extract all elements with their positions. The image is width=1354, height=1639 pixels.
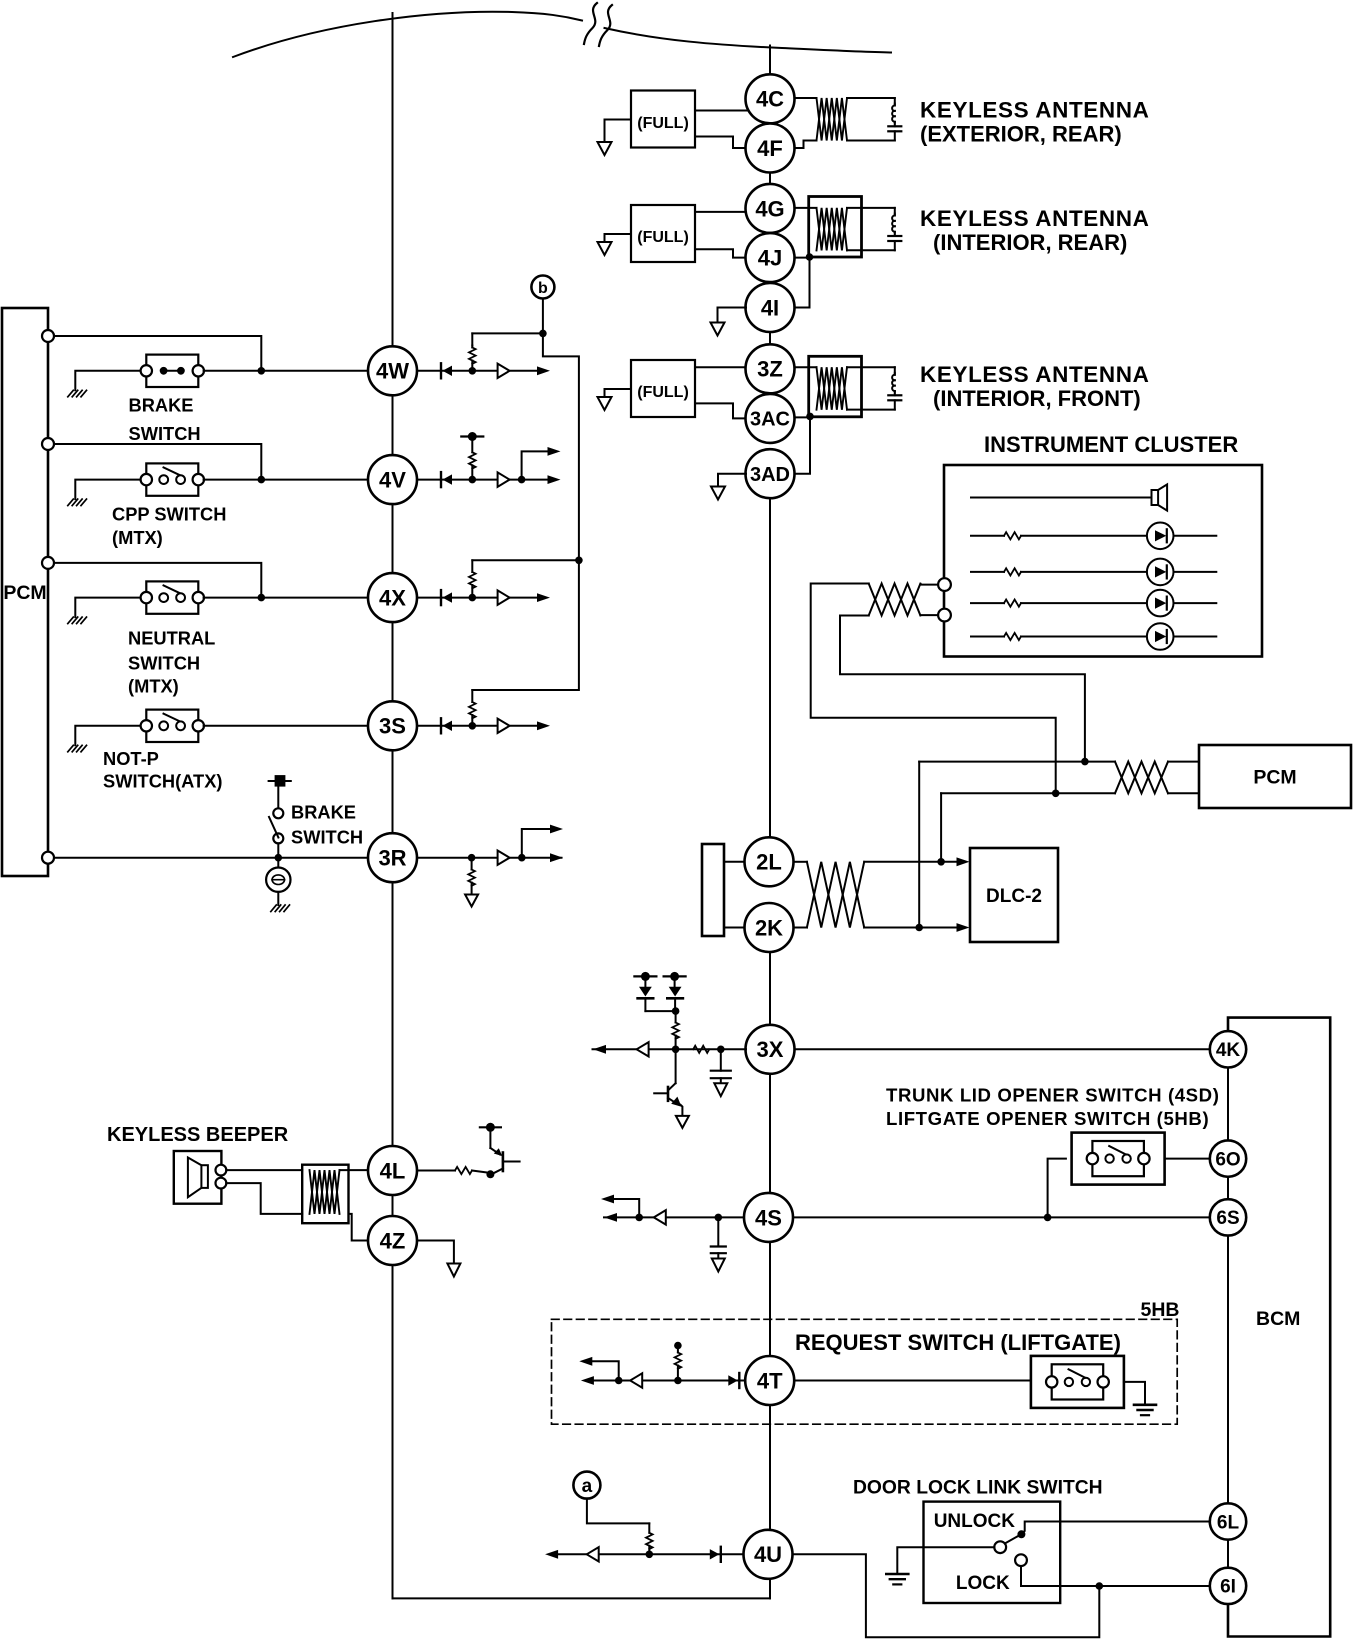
connector 4S — [744, 1193, 793, 1242]
arrow — [957, 857, 970, 866]
resistor — [675, 1011, 677, 1022]
wire — [920, 584, 938, 586]
wire — [349, 1214, 369, 1241]
wire — [1021, 636, 1147, 638]
node — [615, 1377, 623, 1385]
capacitor — [888, 394, 901, 396]
arrow — [550, 825, 563, 834]
node — [1044, 1214, 1052, 1222]
svg-text:4U: 4U — [754, 1542, 782, 1567]
wire — [587, 1499, 649, 1524]
buffer — [587, 1547, 599, 1561]
node — [468, 854, 476, 862]
wire — [847, 207, 895, 209]
wire — [718, 308, 747, 323]
capacitor — [720, 1049, 722, 1070]
wire — [695, 249, 747, 257]
wire: left bus segment — [392, 750, 394, 833]
node — [575, 557, 583, 565]
wire: left bus segment — [392, 395, 394, 455]
wire — [847, 97, 895, 99]
ground — [711, 487, 725, 500]
wire — [1021, 571, 1147, 573]
svg-text:6S: 6S — [1216, 1208, 1239, 1229]
resistor — [455, 1167, 472, 1174]
switch: NOT-P SWITCH (open) — [146, 710, 198, 742]
arrow — [579, 1357, 592, 1366]
arrow — [957, 923, 970, 932]
resistor — [1004, 568, 1021, 575]
arrow — [601, 1195, 614, 1204]
arrow — [581, 1376, 594, 1385]
node — [275, 854, 283, 862]
wire — [1168, 761, 1199, 763]
wire — [894, 232, 896, 236]
wire — [1174, 636, 1217, 638]
wire — [695, 137, 747, 149]
svg-text:DOOR LOCK LINK SWITCH: DOOR LOCK LINK SWITCH — [853, 1478, 1103, 1499]
wire — [864, 927, 957, 929]
wire — [54, 857, 368, 859]
pin — [216, 1165, 227, 1176]
diode — [638, 997, 654, 1000]
svg-text:2L: 2L — [756, 850, 782, 875]
wire: right bus segment — [769, 498, 771, 837]
buffer — [654, 1210, 666, 1224]
node — [1081, 758, 1089, 766]
node — [715, 1214, 723, 1222]
wire: right bus segment — [769, 332, 771, 344]
module box (FULL) U2 — [631, 205, 695, 262]
wire — [971, 636, 1004, 638]
wire: bottom connector left-bus to 4U — [393, 1597, 771, 1599]
pin — [42, 557, 54, 569]
connector bracket — [702, 844, 724, 936]
buffer — [630, 1373, 642, 1387]
wire: right bus segment — [769, 1579, 771, 1599]
resistor — [471, 690, 473, 702]
resistor — [648, 1523, 650, 1532]
module box: keyless beeper — [174, 1151, 222, 1204]
svg-text:NEUTRAL: NEUTRAL — [128, 628, 215, 649]
wire — [510, 725, 537, 727]
buffer — [498, 472, 510, 486]
connector 6L — [1210, 1503, 1246, 1539]
wire — [794, 1216, 1210, 1218]
contact UNLOCK — [1017, 1530, 1025, 1538]
connector 3AC — [746, 394, 795, 443]
connector 6S — [1210, 1199, 1246, 1235]
power tap — [461, 435, 483, 437]
wire: left bus segment — [392, 504, 394, 573]
wire — [75, 480, 140, 500]
svg-text:3Z: 3Z — [757, 357, 783, 382]
connector 4F — [746, 124, 795, 173]
module box (FULL) U3 — [631, 360, 695, 417]
switch: BRAKE SWITCH (vertical) — [269, 780, 291, 782]
svg-text:KEYLESS ANTENNA: KEYLESS ANTENNA — [920, 206, 1149, 231]
ground — [68, 499, 74, 506]
pin — [938, 578, 951, 591]
wire — [614, 1199, 639, 1217]
antenna coil L3 — [817, 367, 848, 410]
svg-text:4G: 4G — [755, 196, 784, 221]
svg-text:3X: 3X — [757, 1037, 784, 1062]
svg-text:4F: 4F — [757, 136, 783, 161]
boundary: 5HB dashed box — [552, 1319, 1178, 1424]
svg-text:(MTX): (MTX) — [128, 676, 179, 697]
wire — [1168, 792, 1199, 794]
node — [937, 858, 945, 866]
connector 6I — [1210, 1568, 1246, 1604]
wire — [918, 762, 920, 928]
transistor Q1 — [480, 1126, 501, 1128]
antenna coil L2 — [817, 208, 848, 251]
node — [469, 367, 477, 375]
connector 4V — [368, 455, 417, 504]
wire: right bus segment — [769, 173, 771, 184]
wire: harness arc (left portion) — [233, 12, 582, 57]
wire — [340, 1169, 369, 1171]
wire — [971, 535, 1004, 537]
wire — [1124, 1382, 1145, 1405]
wire — [543, 333, 579, 560]
svg-text:(MTX): (MTX) — [112, 527, 163, 548]
svg-text:a: a — [582, 1476, 593, 1497]
connector 3R — [368, 833, 417, 882]
wire — [695, 110, 747, 112]
buffer — [498, 719, 510, 733]
connector 4X — [368, 573, 417, 622]
wire — [795, 416, 811, 418]
antenna coil L1 — [817, 98, 848, 141]
node — [469, 476, 477, 484]
wire — [971, 602, 1004, 604]
wire — [204, 725, 368, 727]
svg-text:6L: 6L — [1217, 1512, 1240, 1533]
arrow — [593, 1045, 606, 1054]
ground — [712, 1259, 725, 1272]
capacitor — [717, 1217, 719, 1246]
wire — [695, 211, 747, 213]
contact LOCK — [1015, 1554, 1027, 1566]
wire — [75, 371, 140, 391]
svg-text:BCM: BCM — [1256, 1308, 1300, 1330]
inductor — [894, 373, 896, 375]
wire — [724, 927, 745, 929]
pin — [42, 438, 54, 450]
wire — [971, 497, 1152, 499]
svg-text:SWITCH: SWITCH — [129, 423, 201, 444]
wire — [1021, 602, 1147, 604]
node — [1096, 1582, 1104, 1590]
capacitor — [888, 125, 901, 127]
switch: NEUTRAL SWITCH (open) — [146, 581, 198, 613]
resistor — [693, 1046, 709, 1053]
node — [518, 476, 526, 484]
power tap — [634, 975, 656, 977]
svg-text:(INTERIOR, FRONT): (INTERIOR, FRONT) — [933, 386, 1141, 411]
wire — [510, 857, 562, 859]
wire — [795, 207, 817, 209]
svg-text:DLC-2: DLC-2 — [986, 886, 1042, 907]
wire — [54, 563, 261, 598]
arrow — [548, 475, 561, 484]
diode — [440, 590, 442, 605]
node — [646, 1551, 654, 1559]
wire — [940, 793, 942, 862]
ground — [886, 1573, 908, 1576]
wire — [417, 857, 498, 859]
wire — [645, 1010, 675, 1012]
wire: right bus segment — [769, 46, 771, 75]
diode — [440, 718, 442, 733]
ground — [598, 242, 612, 255]
connector 4L — [368, 1146, 417, 1195]
svg-text:3R: 3R — [378, 846, 406, 871]
wire — [556, 1553, 744, 1555]
svg-text:(FULL): (FULL) — [637, 115, 689, 132]
pin — [938, 609, 951, 622]
wire — [417, 725, 498, 727]
wire — [864, 861, 957, 863]
switch: trunk/liftgate opener — [1072, 1133, 1165, 1185]
svg-text:2K: 2K — [755, 915, 783, 940]
svg-text:4C: 4C — [756, 87, 784, 112]
wire: left bus segment — [392, 882, 394, 1146]
wire — [592, 1380, 745, 1382]
wire — [920, 614, 938, 616]
connector 2L — [745, 837, 794, 886]
module box BCM — [1228, 1018, 1330, 1637]
connector 4W — [368, 346, 417, 395]
svg-text:b: b — [538, 280, 548, 297]
node — [672, 1007, 680, 1015]
arrow — [537, 721, 550, 730]
diode — [440, 472, 442, 487]
wire — [674, 998, 676, 1011]
node — [672, 1046, 680, 1054]
wire — [794, 927, 807, 929]
wire — [510, 479, 548, 481]
wire: right bus segment — [769, 1405, 771, 1530]
LED indicator — [1147, 559, 1174, 586]
arrow — [545, 1550, 558, 1559]
buffer — [498, 851, 510, 865]
wire — [695, 366, 747, 368]
connector 3S — [368, 701, 417, 750]
connector 3AD — [746, 449, 795, 498]
wire — [894, 98, 896, 104]
module box INSTRUMENT CLUSTER — [944, 465, 1262, 657]
module box DLC-2 — [970, 848, 1058, 942]
pin — [42, 852, 54, 864]
arrow — [537, 593, 550, 602]
arrow — [548, 447, 561, 456]
wire — [605, 389, 632, 397]
svg-text:BRAKE: BRAKE — [129, 395, 194, 416]
twisted pair — [869, 584, 921, 616]
ground — [447, 1264, 460, 1277]
node — [915, 924, 923, 932]
wire — [894, 391, 896, 395]
node — [469, 722, 477, 730]
wire — [204, 479, 368, 481]
node — [1052, 790, 1060, 798]
svg-text:TRUNK LID OPENER SWITCH (4SD): TRUNK LID OPENER SWITCH (4SD) — [886, 1085, 1220, 1106]
svg-text:REQUEST SWITCH (LIFTGATE): REQUEST SWITCH (LIFTGATE) — [795, 1330, 1121, 1355]
twisted pair — [1115, 762, 1168, 794]
connector 4C — [746, 74, 795, 123]
module box (FULL) U1 — [631, 91, 695, 148]
wire — [417, 370, 498, 372]
wire — [794, 1380, 1031, 1382]
switch: BRAKE SWITCH (closed) — [146, 355, 198, 387]
wire — [644, 998, 646, 1011]
ground — [714, 1083, 727, 1096]
wire — [592, 1361, 619, 1380]
svg-text:4L: 4L — [380, 1158, 406, 1183]
wire — [718, 474, 746, 487]
node — [539, 330, 547, 338]
ground — [68, 745, 74, 752]
svg-text:4V: 4V — [379, 468, 406, 493]
connector 4U — [744, 1530, 793, 1579]
svg-text:KEYLESS ANTENNA: KEYLESS ANTENNA — [920, 362, 1149, 387]
wire — [542, 299, 544, 334]
resistor — [1004, 532, 1021, 539]
wire — [795, 97, 817, 99]
wire — [1021, 1566, 1210, 1586]
svg-text:5HB: 5HB — [1141, 1299, 1180, 1321]
resistor — [471, 346, 473, 348]
svg-text:3AD: 3AD — [750, 464, 790, 486]
wire — [795, 1048, 1211, 1050]
wire — [472, 332, 543, 334]
connector 3X — [746, 1025, 795, 1074]
wire — [605, 234, 632, 242]
node — [469, 594, 477, 602]
svg-text:4X: 4X — [379, 586, 406, 611]
connector 2K — [745, 903, 794, 952]
wire — [971, 571, 1004, 573]
wire — [1165, 1158, 1210, 1160]
wire — [894, 367, 896, 373]
node — [674, 1377, 682, 1385]
wire — [417, 1241, 454, 1264]
ground — [1134, 1404, 1156, 1407]
LED indicator — [1147, 590, 1174, 617]
buffer — [637, 1042, 649, 1056]
module box: door lock link switch — [924, 1502, 1061, 1603]
wire — [894, 122, 896, 126]
svg-text:PCM: PCM — [1253, 767, 1296, 789]
svg-text:(INTERIOR, REAR): (INTERIOR, REAR) — [933, 230, 1127, 255]
arrow — [550, 853, 563, 862]
transistor Q2 — [675, 1049, 677, 1083]
wire — [795, 141, 817, 149]
wire — [472, 560, 579, 690]
svg-text:PCM: PCM — [3, 582, 46, 604]
ground — [465, 895, 478, 907]
node — [674, 1342, 682, 1350]
wire — [226, 1183, 302, 1214]
wire — [724, 861, 745, 863]
wire — [204, 597, 368, 599]
wire — [847, 140, 895, 142]
wire — [1021, 535, 1147, 537]
ground — [68, 617, 74, 624]
switch: CPP SWITCH (open) — [146, 463, 198, 495]
wire — [795, 257, 810, 259]
power tap — [664, 975, 686, 977]
connector 4J — [746, 233, 795, 282]
svg-text:4Z: 4Z — [380, 1228, 406, 1253]
wire — [204, 370, 368, 372]
pin — [216, 1178, 227, 1189]
diode — [440, 363, 442, 378]
wire — [795, 366, 817, 368]
diode — [738, 1373, 740, 1388]
wire — [897, 1547, 994, 1573]
wire — [811, 584, 1056, 794]
line-break squiggle — [584, 3, 597, 44]
wire — [472, 1171, 487, 1173]
node: junction 4J/shield — [806, 253, 814, 261]
lamp: brake indicator — [277, 858, 279, 868]
wire — [1174, 535, 1217, 537]
wire — [695, 403, 747, 418]
wire — [1174, 571, 1217, 573]
wire: right bus segment — [769, 1074, 771, 1193]
wire — [75, 598, 140, 618]
wire — [795, 257, 810, 308]
resistor — [471, 858, 473, 870]
node — [717, 1046, 725, 1054]
wire — [604, 1216, 744, 1218]
wire — [417, 1170, 455, 1172]
svg-text:4K: 4K — [1216, 1040, 1241, 1061]
wire — [840, 616, 1085, 762]
svg-text:SWITCH: SWITCH — [291, 827, 363, 848]
buffer — [498, 364, 510, 378]
arrow — [537, 366, 550, 375]
wire: BCM edge segment — [1227, 1177, 1229, 1199]
wire — [75, 726, 140, 746]
wire — [894, 208, 896, 214]
node a — [573, 1472, 600, 1499]
svg-text:3AC: 3AC — [750, 409, 790, 431]
wire — [510, 597, 537, 599]
svg-text:NOT-P: NOT-P — [103, 748, 159, 769]
wire — [847, 366, 895, 368]
wire — [894, 131, 896, 140]
wire — [593, 1048, 747, 1050]
svg-text:KEYLESS BEEPER: KEYLESS BEEPER — [107, 1124, 289, 1146]
ground — [68, 390, 74, 397]
svg-text:LIFTGATE OPENER SWITCH (5HB): LIFTGATE OPENER SWITCH (5HB) — [886, 1108, 1209, 1129]
speaker (cluster) — [1152, 490, 1159, 505]
wire — [54, 336, 261, 371]
switch: request switch — [1031, 1356, 1124, 1408]
wire — [795, 416, 810, 473]
ground — [271, 905, 277, 912]
svg-text:6O: 6O — [1215, 1149, 1240, 1170]
svg-text:3S: 3S — [379, 714, 406, 739]
svg-text:SWITCH(ATX): SWITCH(ATX) — [103, 771, 222, 792]
ground — [711, 323, 725, 336]
node — [258, 476, 266, 484]
